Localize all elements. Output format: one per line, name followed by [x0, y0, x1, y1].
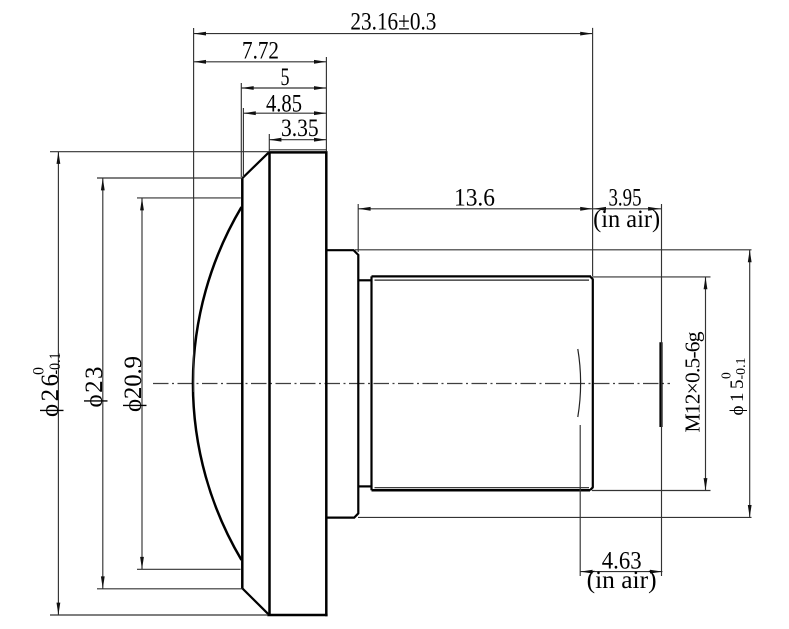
- extension line 4.85: [242, 108, 244, 177]
- extension line phi20.9 top: [137, 197, 241, 199]
- svg-text:-0.1: -0.1: [733, 358, 748, 380]
- extension line phi26 bottom: [50, 614, 268, 616]
- extension line 3.35: [268, 134, 270, 151]
- lens front face (phi23 flat): [241, 178, 244, 589]
- svg-text:(in air): (in air): [593, 206, 660, 233]
- extension line rear vertex: [579, 425, 581, 576]
- bezel rear face: [325, 151, 328, 616]
- extension line vertex left: [193, 28, 195, 392]
- svg-text:23.16±0.3: 23.16±0.3: [350, 9, 436, 36]
- svg-text:5: 5: [281, 64, 290, 91]
- svg-text:3.35: 3.35: [281, 115, 319, 142]
- extension line barrel right: [592, 28, 594, 276]
- bezel bottom chamfer: [243, 589, 270, 615]
- neck top edge: [358, 279, 371, 281]
- bezel bottom edge (phi26): [267, 614, 327, 617]
- dimension 4.63 (in air): [580, 548, 662, 594]
- bezel top chamfer: [243, 152, 270, 178]
- svg-text:0: 0: [31, 367, 48, 375]
- neck bottom edge: [358, 485, 371, 487]
- barrel bottom-right chamfer: [590, 487, 593, 490]
- svg-text:4.85: 4.85: [266, 91, 302, 118]
- svg-text:ϕ26: ϕ26: [37, 374, 64, 417]
- barrel bottom edge: [372, 489, 591, 492]
- svg-text:7.72: 7.72: [242, 38, 279, 65]
- dimension M12x0.5-6g: [681, 277, 708, 491]
- extension line phi26 top: [50, 151, 269, 153]
- centerline: [153, 383, 670, 385]
- extension line 5: [240, 83, 242, 177]
- dimension phi26: [31, 152, 65, 616]
- svg-text:ϕ23: ϕ23: [81, 367, 108, 408]
- dimension 7.72: [194, 38, 327, 65]
- bezel inner edge line: [268, 152, 271, 615]
- lens front arc: [193, 207, 242, 560]
- dimension phi20.9: [120, 198, 147, 569]
- dimension 13.6: [358, 184, 592, 211]
- svg-text:ϕ15: ϕ15: [727, 380, 748, 416]
- extension line M12 top: [592, 276, 711, 278]
- extension line phi15 top: [355, 249, 752, 251]
- barrel right face: [592, 279, 594, 488]
- svg-text:ϕ20.9: ϕ20.9: [120, 356, 147, 412]
- dimension 5: [241, 64, 326, 91]
- dimension phi23: [81, 178, 108, 589]
- dimension 4.85: [243, 91, 326, 118]
- dimension 23.16±0.3: [194, 9, 593, 36]
- svg-text:-0.1: -0.1: [47, 353, 64, 375]
- extension line bezel top inner: [269, 149, 326, 151]
- extension line flange right: [357, 204, 359, 252]
- svg-text:0: 0: [719, 372, 734, 379]
- barrel left face: [370, 276, 372, 490]
- svg-text:13.6: 13.6: [454, 184, 495, 211]
- extension line phi20.9 bottom: [137, 568, 241, 570]
- svg-text:(in air): (in air): [587, 567, 657, 594]
- barrel top edge: [372, 275, 592, 277]
- image plane mark: [659, 342, 662, 427]
- flange top edge: [327, 250, 358, 517]
- thread root line bottom: [375, 487, 590, 489]
- bezel top edge (phi26): [268, 151, 327, 154]
- dimension 3.95 (in air): [593, 184, 662, 233]
- extension line phi23 bottom: [97, 588, 243, 590]
- svg-text:M12×0.5-6g: M12×0.5-6g: [681, 331, 705, 432]
- barrel top-right chamfer: [590, 276, 593, 279]
- extension line phi15 bottom: [358, 516, 752, 518]
- extension line phi23 top: [97, 177, 243, 179]
- extension line bezel rear: [325, 57, 327, 151]
- thread root line top: [375, 279, 590, 281]
- dimension 3.35: [269, 115, 326, 142]
- extension line M12 bottom: [592, 490, 711, 492]
- dimension phi15: [719, 250, 752, 518]
- rear lens surface arc: [578, 349, 581, 417]
- extension line image plane: [661, 204, 663, 576]
